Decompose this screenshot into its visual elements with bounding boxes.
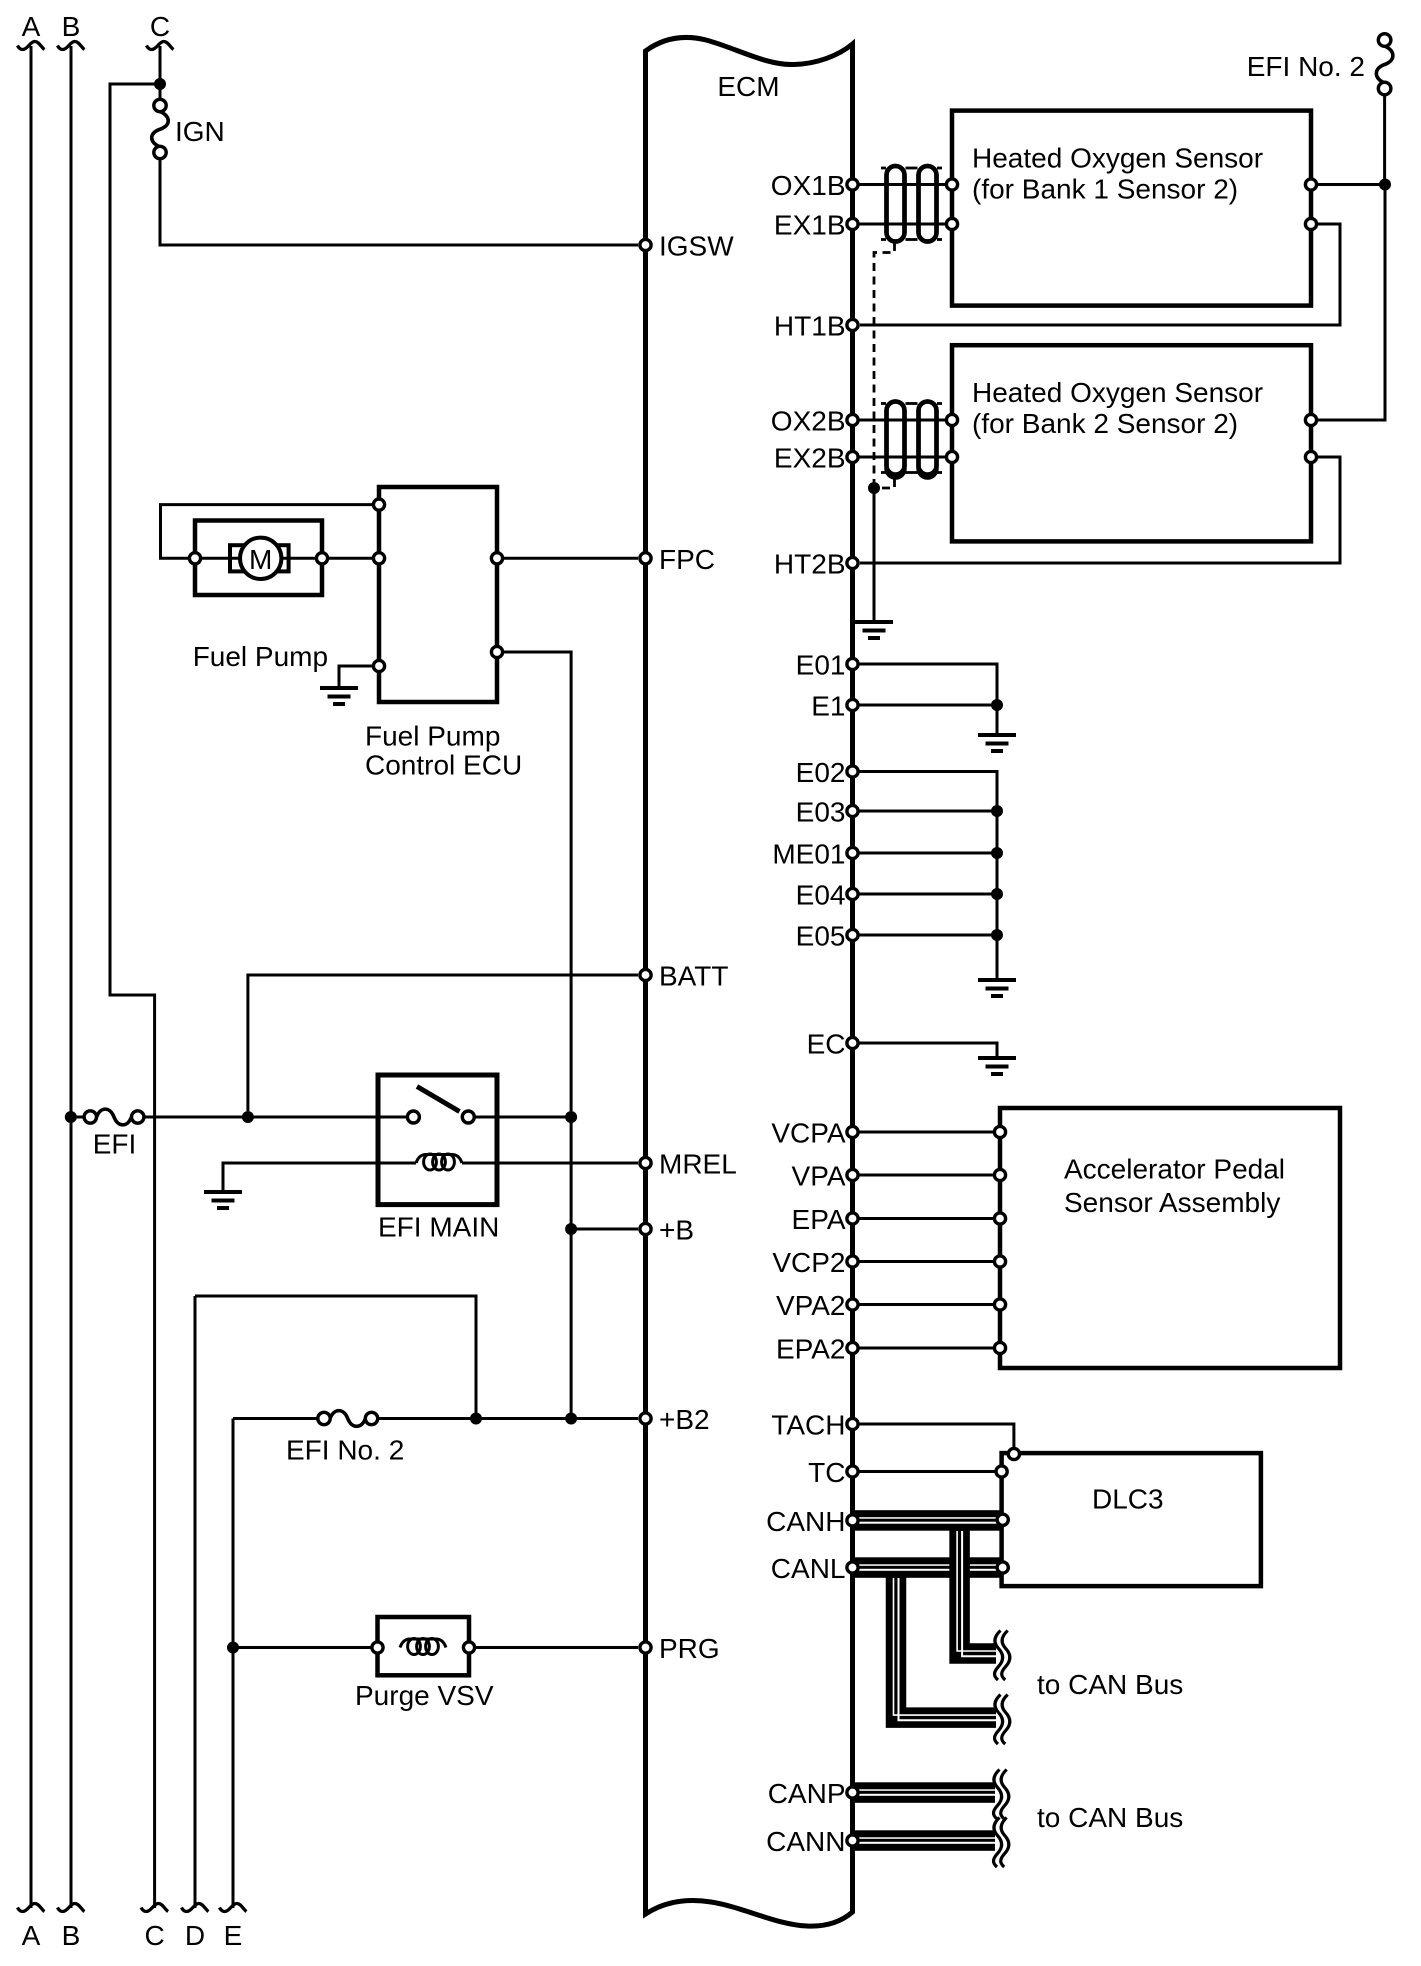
pin FPCU power in [491, 646, 502, 657]
wire ME01 [858, 852, 997, 855]
accelerator pedal sensor box [1000, 1108, 1340, 1368]
pin DLC3 TC [996, 1466, 1007, 1477]
svg-text:E: E [224, 1920, 243, 1951]
wire EPA [858, 1217, 994, 1220]
connector shield dashed conn2 [881, 404, 942, 473]
svg-text:A: A [22, 1920, 41, 1951]
pin HOS2 out1 [1305, 414, 1316, 425]
wire through motor [201, 557, 316, 560]
svg-text:VCPA: VCPA [771, 1118, 845, 1149]
wire PRG [475, 1646, 638, 1649]
wire VPA2 [858, 1303, 994, 1306]
ground relay coil [204, 1192, 242, 1208]
svg-text:MREL: MREL [659, 1149, 737, 1180]
svg-text:OX1B: OX1B [771, 170, 846, 201]
pin EPA [847, 1213, 858, 1224]
svg-text:EPA: EPA [792, 1204, 846, 1235]
svg-text:CANP: CANP [768, 1778, 846, 1809]
node B bottom break [58, 1903, 85, 1911]
pin VPA [847, 1169, 858, 1180]
svg-text:C: C [144, 1920, 164, 1951]
pin pedal VCPA [994, 1126, 1005, 1137]
wire HOS2 B+ [1318, 185, 1385, 421]
wire FPCU ground lead [339, 666, 379, 686]
DLC3 box [1002, 1453, 1261, 1586]
svg-text:VPA2: VPA2 [776, 1290, 846, 1321]
relay switch pin right [462, 1111, 474, 1123]
wire VCPA [858, 1131, 994, 1134]
svg-text:HT1B: HT1B [774, 311, 846, 342]
svg-text:ME01: ME01 [772, 839, 845, 870]
pin DLC3 CANH [997, 1514, 1008, 1525]
svg-text:OX2B: OX2B [771, 406, 846, 437]
dashed shield drain conn2 [878, 479, 895, 488]
connector capsules conn2 [887, 402, 905, 475]
pin E05 [847, 929, 858, 940]
wire shield to ground [873, 488, 876, 620]
svg-text:E05: E05 [796, 921, 846, 952]
wire relay out [475, 1116, 572, 1119]
pin HOS1 out1 [1305, 179, 1316, 190]
wire MREL [462, 1162, 638, 1165]
svg-text:E02: E02 [796, 757, 846, 788]
junction shield drain [868, 482, 880, 494]
CAN bus CANL branch [896, 1576, 996, 1718]
pin E02 [847, 766, 858, 777]
CAN bus CANH band [853, 1510, 1002, 1517]
pin BATT [640, 969, 651, 980]
svg-text:Control ECU: Control ECU [365, 749, 522, 780]
wire D rail to +B2 row [195, 1296, 476, 1419]
junction C/IGN [154, 78, 166, 90]
pin E1 [847, 699, 858, 710]
svg-text:FPC: FPC [659, 544, 715, 575]
wire E rail to EFI No.2 fuse [233, 1417, 318, 1420]
pin pedal VCP2 [994, 1256, 1005, 1267]
wire FPCU power from relay [497, 652, 571, 1111]
node A top break [18, 41, 45, 49]
pin IGSW [640, 239, 651, 250]
fuse EFI [97, 1109, 132, 1125]
pin VCP2 [847, 1256, 858, 1267]
pin VPA2 [847, 1299, 858, 1310]
break CANH branch [995, 1631, 1010, 1681]
wire E03 [858, 810, 997, 813]
svg-text:Purge VSV: Purge VSV [355, 1680, 494, 1711]
wire +B rail vertical [570, 1117, 573, 1419]
pin DLC3 CANL [997, 1562, 1008, 1573]
pin HT1B [847, 319, 858, 330]
junction E1 [991, 699, 1003, 711]
wire +B2 [378, 1417, 639, 1420]
svg-text:PRG: PRG [659, 1633, 720, 1664]
pin HT2B [847, 557, 858, 568]
svg-text:E1: E1 [811, 691, 845, 722]
pin fuel pump right [316, 553, 327, 564]
svg-text:M: M [249, 544, 272, 575]
capsule outlines conn1 [887, 166, 905, 242]
fuse EFI No. 2 [330, 1411, 366, 1427]
CAN bus CANH branch [960, 1529, 996, 1654]
wire EFI No.2 down [1383, 95, 1386, 185]
wire HT2B [860, 457, 1340, 563]
svg-text:+B2: +B2 [659, 1404, 710, 1435]
pin FPCU FPC out [491, 553, 502, 564]
break CANL branch [995, 1695, 1010, 1745]
svg-text:CANL: CANL [771, 1553, 846, 1584]
pin VSV left [372, 1642, 383, 1653]
ground E02-E05 [978, 980, 1016, 996]
pin EX1B [847, 218, 858, 229]
wire EX2B [858, 456, 946, 459]
svg-text:E01: E01 [796, 650, 846, 681]
svg-text:A: A [22, 11, 41, 42]
wire EPA2 [858, 1347, 994, 1350]
fuse IGN [152, 112, 169, 148]
svg-text:EFI MAIN: EFI MAIN [378, 1211, 499, 1242]
junction HOS1 B+ [1379, 179, 1391, 191]
wire relay coil to ground [223, 1163, 416, 1190]
svg-text:EC: EC [807, 1029, 846, 1060]
junction E03 [991, 805, 1003, 817]
pin HOS1 in2 [946, 218, 957, 229]
wire TC [858, 1470, 995, 1473]
svg-text:TACH: TACH [771, 1410, 845, 1441]
junction E05 [991, 929, 1003, 941]
node A bottom break [18, 1903, 45, 1911]
node C bottom break [141, 1903, 168, 1911]
pin EC [847, 1037, 858, 1048]
pin +B2 [640, 1413, 651, 1424]
junction B/EFI fuse [65, 1111, 77, 1123]
pin E01 [847, 658, 858, 669]
wire EC [858, 1043, 997, 1056]
wire VCP2 [858, 1260, 994, 1263]
wire BATT [248, 975, 638, 1111]
wire HT1B [860, 224, 1340, 325]
pin OX1B [847, 179, 858, 190]
wire FPCU to pump loop [161, 505, 380, 559]
wire FPC [497, 557, 638, 560]
svg-text:IGN: IGN [175, 116, 225, 147]
svg-text:E03: E03 [796, 797, 846, 828]
node B top break [58, 41, 85, 49]
pin pedal VPA2 [994, 1299, 1005, 1310]
break CANP [994, 1770, 1009, 1820]
wire pump to FPCU [328, 557, 379, 560]
motor M1 fuel pump motor [240, 538, 281, 579]
fuel pump control ECU box [379, 487, 497, 702]
motor M1 brush rect [230, 545, 289, 571]
svg-text:HT2B: HT2B [774, 549, 846, 580]
op-amp U1 ECM outline [646, 37, 853, 1926]
svg-text:CANH: CANH [766, 1506, 845, 1537]
wire HOS1 B+ [1318, 183, 1385, 186]
relay EFI MAIN box [378, 1075, 497, 1205]
pin FPCU upper-left [373, 499, 384, 510]
pin TACH [847, 1418, 858, 1429]
wire E02 rail [858, 772, 997, 979]
wire E04 [858, 893, 997, 896]
junction BATT tap [242, 1111, 254, 1123]
relay switch blade [417, 1087, 460, 1112]
svg-text:+B: +B [659, 1215, 694, 1246]
svg-text:Accelerator Pedal: Accelerator Pedal [1064, 1154, 1285, 1185]
wire bus E [232, 1419, 235, 1909]
pin CANN [847, 1835, 858, 1846]
node C top break [147, 41, 174, 49]
svg-text:VCP2: VCP2 [772, 1247, 845, 1278]
svg-text:ECM: ECM [717, 71, 779, 102]
svg-text:EX1B: EX1B [774, 210, 846, 241]
wire E01 [858, 664, 997, 705]
relay switch pin left [407, 1111, 419, 1123]
wire VPA [858, 1174, 994, 1177]
pin E03 [847, 805, 858, 816]
wire C branch down [110, 84, 158, 1908]
wire to purge VSV [233, 1646, 371, 1649]
ground E1 [978, 735, 1016, 751]
pin HOS2 out2 [1305, 451, 1316, 462]
pin CANP [847, 1787, 858, 1798]
pin fuel pump left [189, 553, 200, 564]
wire E1 [858, 704, 997, 707]
junction +B [565, 1223, 577, 1235]
pin MREL [640, 1157, 651, 1168]
pin +B [640, 1223, 651, 1234]
pin VCPA [847, 1126, 858, 1137]
wire bus A [30, 46, 33, 1908]
pin HOS1 in1 [946, 179, 957, 190]
wire bus C top [159, 46, 162, 99]
pin EPA2 [847, 1342, 858, 1353]
wire +B [571, 1228, 638, 1231]
CAN bus CANN band [853, 1830, 996, 1837]
wire OX2B [858, 419, 946, 422]
svg-text:C: C [150, 11, 170, 42]
wire bus D [194, 1296, 197, 1908]
svg-text:DLC3: DLC3 [1092, 1484, 1164, 1515]
svg-text:Fuel Pump: Fuel Pump [365, 721, 500, 752]
pin HOS1 out2 [1305, 218, 1316, 229]
pin E04 [847, 888, 858, 899]
pin ME01 [847, 847, 858, 858]
svg-text:BATT: BATT [659, 961, 728, 992]
svg-text:B: B [62, 1920, 81, 1951]
wire bus B [70, 46, 73, 1908]
junction +B2/relay rail [565, 1413, 577, 1425]
ground FPCU [320, 688, 358, 704]
wire TACH [858, 1424, 1014, 1448]
svg-text:Fuel Pump: Fuel Pump [193, 641, 328, 672]
pin pedal EPA [994, 1213, 1005, 1224]
pin FPC [640, 553, 651, 564]
pin TC [847, 1466, 858, 1477]
wire E1 ground lead [996, 705, 999, 733]
junction ME01 [991, 847, 1003, 859]
pin EX2B [847, 451, 858, 462]
pin pedal VPA [994, 1169, 1005, 1180]
ground shield [855, 622, 893, 638]
pin FPCU mid-left [373, 553, 384, 564]
svg-text:EFI: EFI [93, 1129, 137, 1160]
svg-text:Sensor Assembly: Sensor Assembly [1064, 1187, 1280, 1218]
heated oxygen sensor bank2 box [952, 345, 1311, 541]
pin HOS2 in1 [946, 414, 957, 425]
ground EC [978, 1058, 1016, 1074]
wire B to EFI fuse [71, 1116, 85, 1119]
solenoid Purge VSV box [378, 1617, 470, 1675]
pin pedal EPA2 [994, 1342, 1005, 1353]
pin DLC3 TACH [1008, 1448, 1019, 1459]
svg-text:(for Bank 1 Sensor 2): (for Bank 1 Sensor 2) [972, 174, 1238, 205]
svg-text:to CAN Bus: to CAN Bus [1037, 1802, 1183, 1833]
pin PRG [640, 1642, 651, 1653]
junction +B2/D rail [470, 1413, 482, 1425]
wire EFI fuse to relay [144, 1116, 408, 1119]
wire E05 [858, 934, 997, 937]
junction relay output [565, 1111, 577, 1123]
connector capsules conn1 [887, 166, 905, 242]
CAN bus CANP band [853, 1782, 996, 1789]
break CANN [994, 1818, 1009, 1868]
fuel pump assembly box [195, 521, 322, 596]
svg-text:B: B [62, 11, 81, 42]
svg-text:EPA2: EPA2 [776, 1334, 846, 1365]
connector shield dashed conn1 [881, 168, 942, 240]
relay coil EFI MAIN [416, 1154, 462, 1170]
svg-text:Heated Oxygen Sensor: Heated Oxygen Sensor [972, 377, 1263, 408]
pin HOS2 in2 [946, 451, 957, 462]
svg-text:(for Bank 2 Sensor 2): (for Bank 2 Sensor 2) [972, 408, 1238, 439]
fuse EFI No. 2 top right [1376, 46, 1393, 83]
svg-text:D: D [185, 1920, 205, 1951]
pin FPCU lower-left [373, 660, 384, 671]
dashed shield drain conn1 [874, 243, 895, 485]
svg-text:EX2B: EX2B [774, 443, 846, 474]
heated oxygen sensor bank1 box [952, 111, 1311, 306]
svg-text:IGSW: IGSW [659, 231, 734, 262]
wire OX1B [858, 183, 946, 186]
svg-text:Heated Oxygen Sensor: Heated Oxygen Sensor [972, 143, 1263, 174]
node E bottom break [220, 1903, 247, 1911]
svg-text:EFI No. 2: EFI No. 2 [1247, 51, 1365, 82]
coil Purge VSV [400, 1639, 446, 1655]
svg-text:E04: E04 [796, 880, 846, 911]
junction E04 [991, 888, 1003, 900]
wire IGN to IGSW [160, 158, 638, 245]
svg-text:EFI No. 2: EFI No. 2 [286, 1435, 404, 1466]
CAN bus CANL band [853, 1557, 1002, 1564]
capsule outlines conn2 [887, 402, 905, 478]
wire EX1B [858, 223, 946, 226]
pin CANH [847, 1515, 858, 1526]
svg-text:TC: TC [808, 1457, 845, 1488]
svg-text:to CAN Bus: to CAN Bus [1037, 1669, 1183, 1700]
junction E/PRG [227, 1642, 239, 1654]
pin CANL [847, 1562, 858, 1573]
svg-text:CANN: CANN [766, 1826, 845, 1857]
pin OX2B [847, 414, 858, 425]
node D bottom break [182, 1903, 209, 1911]
svg-text:VPA: VPA [792, 1161, 846, 1192]
pin VSV right [463, 1642, 474, 1653]
